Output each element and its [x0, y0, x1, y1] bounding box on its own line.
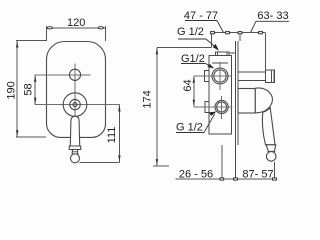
middle port crosshair: [194, 62, 232, 90]
top dimension tick marks: [211, 32, 215, 34]
svg-text:64: 64: [182, 79, 194, 91]
leader arrowhead G 1/2 bottom: [209, 112, 217, 116]
lever escutcheon cap (side view): [238, 88, 276, 161]
dimension 64 line: [193, 76, 195, 107]
dimension 58 line: [34, 75, 36, 105]
leader arrowhead G 1/2 top: [213, 44, 219, 51]
dimension 64 arrowheads: [193, 76, 195, 83]
leader line 63- 33: [251, 21, 290, 32]
bottom port circle G 1/2: [215, 100, 228, 113]
svg-text:174: 174: [142, 90, 154, 108]
svg-text:G 1/2: G 1/2: [177, 26, 204, 38]
lever grip (side view): [262, 108, 275, 145]
svg-text:190: 190: [6, 81, 18, 99]
lever rosette circle: [63, 93, 87, 117]
lever ring (side view): [266, 145, 276, 152]
bottom port crosshair: [194, 96, 233, 119]
top dimension chain lines 47-77 / 63-33: [212, 33, 266, 70]
dimension 174 arrowheads: [156, 48, 158, 55]
dimension 190 lines: [16, 41, 47, 137]
leader line G 1/2 bottom: [176, 114, 215, 133]
lever ball (side view): [266, 152, 276, 162]
centerline vertical axis front view: [74, 64, 76, 117]
leader line G1/2 middle: [181, 64, 213, 68]
leader line 47 - 77: [185, 21, 224, 33]
lever knuckle dome (side view): [255, 88, 272, 113]
svg-text:26 - 56: 26 - 56: [179, 169, 213, 181]
dimension 190 arrowheads: [16, 41, 18, 48]
lever handle ball (front view): [71, 154, 80, 163]
svg-text:87- 57: 87- 57: [242, 169, 273, 181]
escutcheon plate (front view): [47, 42, 106, 138]
svg-text:63- 33: 63- 33: [257, 10, 288, 22]
svg-text:58: 58: [23, 83, 35, 95]
concealed valve body (side view): [205, 52, 236, 134]
bottom dimension chain lines 26-56 / 87-57: [176, 145, 275, 179]
wall section lines: [236, 41, 239, 179]
leader line G 1/2 top: [178, 39, 217, 49]
svg-text:120: 120: [67, 17, 85, 29]
leader arrowhead G1/2 middle: [208, 63, 215, 68]
dimension 120 lines: [47, 26, 106, 41]
svg-text:111: 111: [106, 127, 118, 144]
centerline through diverter knob (horizontal): [35, 74, 90, 76]
svg-text:G 1/2: G 1/2: [176, 122, 203, 134]
diverter knob circle: [69, 69, 80, 80]
centerline through lever hub (horizontal): [35, 104, 119, 106]
dimension 111 lines: [80, 105, 120, 163]
dimension 120 arrowheads: [47, 27, 52, 29]
dimension 111 arrowheads: [118, 105, 120, 112]
dimension 174 lines (side view): [153, 47, 212, 166]
bottom dimension tick marks: [220, 178, 224, 180]
middle port circle G1/2: [212, 68, 228, 84]
outlet pipe stub through wall: [238, 70, 274, 82]
dimension 58 arrowheads: [34, 75, 36, 82]
lever handle shaft (front view): [69, 116, 80, 154]
